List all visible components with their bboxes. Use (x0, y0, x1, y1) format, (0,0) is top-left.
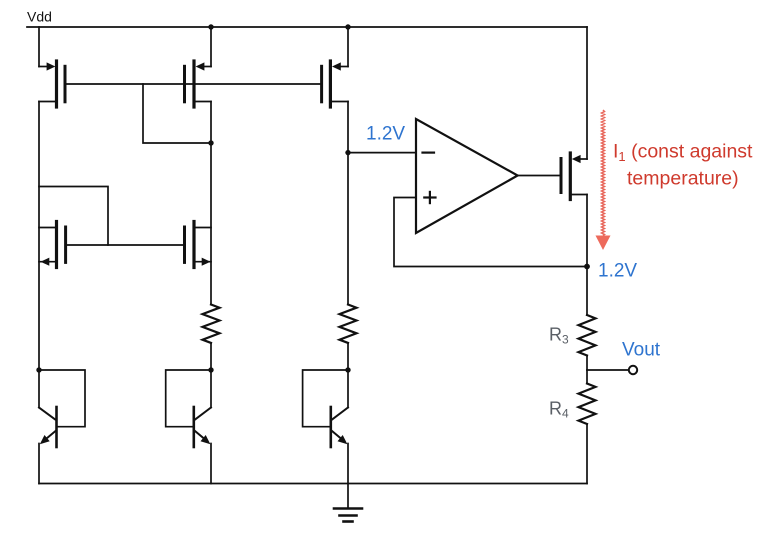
bjt Q1 (39, 370, 85, 484)
resistor R1 (203, 305, 220, 343)
current arrow I1 head (596, 236, 611, 251)
svg-text:1.2V: 1.2V (366, 124, 405, 145)
svg-text:temperature): temperature) (627, 168, 739, 190)
wire Vdd top rail (27, 26, 587, 28)
wire R3 to Vout tap (586, 356, 588, 371)
wire left column top (Vdd to M1 source) (38, 27, 40, 67)
node op-amp minus input tap (345, 150, 350, 155)
wire R1 to Q2 (210, 343, 212, 370)
wire M3 drain-gate tie branch (39, 187, 108, 246)
wire 1.2V node to R3 (586, 267, 588, 316)
wire op-amp output to M6 gate (518, 175, 561, 177)
node Q2 collector (208, 367, 213, 372)
svg-text:R4: R4 (549, 399, 569, 421)
ground (334, 509, 362, 522)
wire left column (M1 drain down to node A) (38, 102, 40, 371)
wire gate bus M3-M4 (66, 244, 185, 246)
node Q3 collector (345, 367, 350, 372)
wire R4 to ground rail (586, 424, 588, 484)
wire middle column (node A down through M4) (210, 143, 212, 305)
svg-text:Vdd: Vdd (27, 9, 52, 25)
resistor R2 (340, 305, 357, 343)
wire Vout tap to R4 (586, 370, 588, 384)
pmos M1 (39, 61, 65, 107)
svg-text:R3: R3 (549, 325, 569, 347)
pmos M2 (185, 27, 212, 143)
node 1.2V feedback junction (584, 264, 590, 270)
wire right column (Vdd to M6 drain) (586, 27, 588, 159)
node M2 drain junction (208, 140, 213, 145)
nmos M3 (39, 222, 66, 268)
wire right-middle column (M5 drain down) (347, 102, 349, 305)
resistor R4 (579, 384, 596, 424)
wire bottom ground rail (39, 483, 587, 485)
wire gate bus M1-M2-M5 (65, 83, 322, 85)
svg-text:1.2V: 1.2V (598, 261, 637, 282)
wire M6 source to 1.2V node (586, 195, 588, 267)
wire Vout tap (587, 369, 629, 371)
node Vout terminal (629, 366, 637, 374)
node M2 source on rail (208, 24, 213, 29)
node M5 source on rail (345, 24, 350, 29)
wire op-amp plus feedback (394, 198, 587, 267)
op-amp U1 (416, 119, 518, 233)
node Q1 collector (36, 367, 41, 372)
pmos M5 (322, 27, 348, 107)
bjt Q3 (303, 370, 348, 509)
wire gate bus to M2 drain (diode connection) (143, 84, 211, 143)
wire op-amp minus input (348, 152, 416, 154)
nmos M4 (185, 222, 212, 268)
transistor M6 output (561, 153, 587, 200)
resistor R3 (579, 315, 596, 355)
bjt Q2 (166, 370, 211, 484)
svg-text:Vout: Vout (622, 340, 661, 361)
wire R2 to Q3 (347, 343, 349, 370)
svg-text:I1 (const against: I1 (const against (613, 141, 753, 164)
current arrow I1 (red squiggle) (602, 110, 605, 236)
